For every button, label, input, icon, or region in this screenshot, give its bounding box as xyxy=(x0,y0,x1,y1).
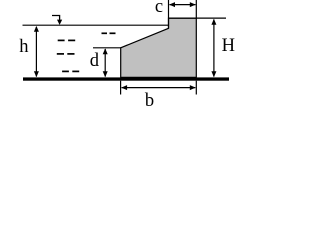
water dash pair row 2 xyxy=(58,39,75,41)
dimension b right extension line xyxy=(195,81,197,95)
weir body (gray trapezoid with step) xyxy=(121,18,197,77)
dimension d reference tick xyxy=(93,47,121,49)
svg-text:d: d xyxy=(90,51,100,71)
dimension b left extension line xyxy=(120,81,122,95)
water surface line xyxy=(23,24,169,26)
svg-text:H: H xyxy=(222,36,235,56)
dimension h arrow xyxy=(34,26,39,77)
channel bed (thick ground line) xyxy=(23,77,229,80)
water dash pair row 1 xyxy=(102,32,116,34)
dimension H arrow xyxy=(211,19,216,77)
water dash pair row 3 xyxy=(57,53,75,55)
dimension c arrow xyxy=(169,2,196,7)
dimension c right extension line xyxy=(195,0,197,18)
dimension c left extension line xyxy=(168,0,170,28)
crest reference line xyxy=(169,17,227,19)
water level marker arrow xyxy=(52,16,62,25)
svg-text:h: h xyxy=(19,37,28,57)
dimension d arrow xyxy=(103,48,108,77)
svg-text:b: b xyxy=(145,91,154,110)
dimension b arrow xyxy=(121,85,196,90)
water dash pair row 4 xyxy=(62,70,79,72)
svg-text:c: c xyxy=(155,0,163,17)
